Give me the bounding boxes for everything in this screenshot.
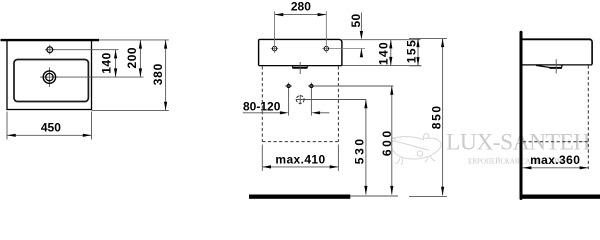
svg-text:80-120: 80-120	[243, 99, 281, 113]
drain notch (front view)	[293, 66, 308, 68]
dashed outline left (front view)	[261, 66, 263, 141]
svg-text:530: 530	[352, 136, 366, 164]
drain inner circle	[46, 73, 53, 80]
dashed outline right (front view)	[337, 66, 339, 141]
watermark bathtub sketch	[391, 134, 441, 165]
basin right edge (side view)	[590, 39, 593, 64]
dimension 450 (top view)	[7, 112, 92, 140]
basin outer rect (top view)	[7, 40, 92, 110]
extension line floor level (side)	[409, 195, 447, 197]
basin underside (side view)	[523, 64, 593, 66]
dimension 50	[349, 13, 363, 58]
extension line front top	[342, 39, 421, 41]
floor extension line	[350, 195, 398, 197]
drain crosshair	[40, 76, 59, 78]
dimension 80-120	[243, 99, 330, 114]
extension line top (wall)	[99, 39, 169, 41]
svg-text:850: 850	[430, 104, 444, 129]
basin front rect	[259, 39, 342, 65]
dashed depth line (side view)	[587, 66, 589, 170]
floor line (front view)	[249, 195, 350, 199]
wall line (side view)	[520, 32, 523, 198]
svg-text:140: 140	[100, 52, 114, 74]
dashed outline bottom (front view)	[262, 141, 338, 143]
dimension max.410	[262, 145, 338, 171]
svg-text:50: 50	[349, 14, 363, 28]
basin front bottom edge	[259, 65, 342, 67]
drain outer circle	[43, 71, 55, 83]
dimension 380 (top view)	[151, 40, 167, 111]
extension line front bottom	[342, 65, 421, 67]
dimension 140 (top view)	[100, 50, 118, 77]
dimension 140 (front view)	[377, 40, 393, 66]
dimension 280	[275, 0, 327, 53]
svg-text:155: 155	[405, 39, 419, 64]
svg-text:200: 200	[125, 47, 139, 69]
extension line faucet level	[54, 49, 119, 51]
dashed height line (side view)	[523, 141, 588, 143]
svg-text:280: 280	[291, 0, 311, 14]
floor line (side view)	[521, 195, 600, 199]
supply hole right	[308, 83, 393, 116]
dimension 530	[352, 100, 367, 195]
dimension 850	[430, 38, 445, 195]
faucet hole crosshair	[45, 49, 55, 51]
svg-text:max.360: max.360	[530, 153, 580, 167]
extension tick 155 bottom	[410, 65, 422, 67]
svg-text:380: 380	[151, 63, 165, 85]
bowl inner rect	[14, 60, 88, 102]
svg-text:max.410: max.410	[275, 152, 325, 166]
dimension max.360	[523, 153, 589, 169]
svg-text:LUX-SANTEH: LUX-SANTEH	[446, 130, 590, 156]
dimension 200 (top view)	[125, 40, 142, 77]
mounting hole left	[271, 46, 279, 50]
mounting hole right	[322, 46, 365, 50]
extension line side top	[409, 37, 447, 39]
dimension 155	[405, 38, 420, 65]
supply hole left	[285, 83, 292, 116]
faucet hole	[47, 47, 53, 53]
drain centerline (front view)	[299, 62, 301, 74]
drain fitting (side view)	[536, 65, 562, 68]
basin top edge (side view)	[521, 38, 591, 40]
svg-text:450: 450	[41, 121, 61, 135]
waste outlet symbol	[296, 95, 366, 105]
extension line drain level	[57, 76, 144, 78]
dimension 600	[380, 86, 394, 195]
svg-text:600: 600	[380, 128, 394, 156]
drain centerline (side view)	[555, 59, 557, 73]
extension line basin front	[92, 109, 169, 111]
wall line (top view)	[1, 39, 100, 41]
svg-text:140: 140	[377, 41, 391, 65]
